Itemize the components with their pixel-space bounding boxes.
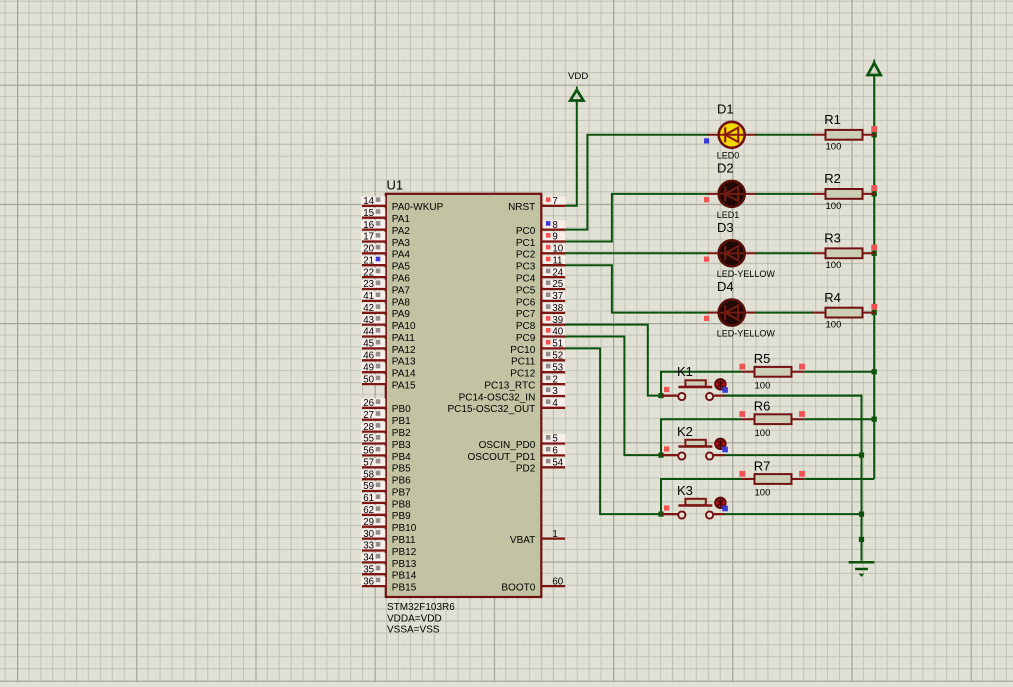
svg-text:PC11: PC11 (511, 357, 536, 368)
svg-text:R7: R7 (754, 458, 771, 473)
svg-text:D3: D3 (717, 220, 734, 235)
svg-text:51: 51 (552, 339, 563, 350)
svg-text:PB12: PB12 (392, 547, 417, 558)
svg-text:42: 42 (363, 303, 374, 314)
svg-text:LED-YELLOW: LED-YELLOW (717, 269, 776, 279)
svg-text:PA5: PA5 (392, 262, 411, 273)
svg-text:38: 38 (552, 303, 563, 314)
svg-text:PA15: PA15 (392, 381, 416, 392)
svg-text:53: 53 (552, 362, 563, 373)
svg-text:29: 29 (363, 517, 374, 528)
svg-text:45: 45 (363, 339, 374, 350)
svg-text:PA6: PA6 (392, 274, 411, 285)
svg-text:PA12: PA12 (392, 345, 416, 356)
svg-text:PC8: PC8 (516, 321, 536, 332)
svg-text:K3: K3 (677, 483, 693, 498)
svg-text:U1: U1 (387, 178, 404, 193)
svg-text:2: 2 (552, 374, 557, 385)
svg-text:PA0-WKUP: PA0-WKUP (392, 202, 444, 213)
svg-text:41: 41 (363, 291, 374, 302)
svg-text:PB15: PB15 (392, 583, 417, 594)
svg-text:37: 37 (552, 291, 563, 302)
svg-text:K2: K2 (677, 424, 693, 439)
svg-text:PB9: PB9 (392, 511, 411, 522)
svg-text:14: 14 (363, 196, 374, 207)
svg-text:33: 33 (363, 541, 374, 552)
svg-text:R5: R5 (754, 351, 771, 366)
svg-text:20: 20 (363, 244, 374, 255)
svg-text:23: 23 (363, 279, 374, 290)
svg-text:17: 17 (363, 232, 374, 243)
svg-text:PB3: PB3 (392, 440, 411, 451)
svg-text:PC9: PC9 (516, 333, 536, 344)
svg-text:60: 60 (552, 576, 563, 587)
svg-text:PA8: PA8 (392, 297, 411, 308)
svg-text:11: 11 (552, 255, 562, 266)
svg-text:100: 100 (826, 319, 842, 330)
svg-text:25: 25 (552, 279, 563, 290)
svg-text:D4: D4 (717, 279, 734, 294)
svg-text:PC2: PC2 (516, 250, 536, 261)
svg-text:PB0: PB0 (392, 404, 411, 415)
svg-text:44: 44 (363, 327, 374, 338)
svg-text:40: 40 (552, 327, 563, 338)
svg-text:62: 62 (363, 505, 374, 516)
svg-text:PA4: PA4 (392, 250, 411, 261)
svg-text:VDDA=VDD: VDDA=VDD (387, 613, 442, 624)
svg-text:PA13: PA13 (392, 357, 416, 368)
svg-text:PC12: PC12 (510, 369, 535, 380)
svg-text:27: 27 (363, 410, 374, 421)
svg-text:26: 26 (363, 398, 374, 409)
svg-text:PA11: PA11 (392, 333, 415, 344)
svg-text:PA9: PA9 (392, 309, 411, 320)
svg-text:D1: D1 (717, 101, 734, 116)
svg-text:VSSA=VSS: VSSA=VSS (387, 625, 440, 636)
svg-text:39: 39 (552, 315, 563, 326)
svg-text:LED-YELLOW: LED-YELLOW (717, 328, 776, 338)
svg-text:59: 59 (363, 481, 374, 492)
svg-text:22: 22 (363, 267, 374, 278)
svg-text:46: 46 (363, 351, 374, 362)
svg-text:PA2: PA2 (392, 226, 411, 237)
svg-text:PB13: PB13 (392, 559, 417, 570)
svg-text:PC1: PC1 (516, 238, 536, 249)
svg-text:PA3: PA3 (392, 238, 411, 249)
svg-text:PB8: PB8 (392, 499, 411, 510)
svg-text:36: 36 (363, 576, 374, 587)
svg-text:3: 3 (552, 386, 557, 397)
svg-text:35: 35 (363, 564, 374, 575)
svg-text:5: 5 (552, 434, 557, 445)
svg-text:OSCIN_PD0: OSCIN_PD0 (479, 440, 536, 451)
svg-text:VBAT: VBAT (510, 535, 535, 546)
svg-text:BOOT0: BOOT0 (501, 583, 535, 594)
svg-text:PC3: PC3 (516, 262, 536, 273)
svg-text:PA7: PA7 (392, 285, 411, 296)
svg-text:PC14-OSC32_IN: PC14-OSC32_IN (459, 392, 536, 403)
svg-text:PB14: PB14 (392, 571, 417, 582)
svg-text:58: 58 (363, 469, 374, 480)
svg-text:R1: R1 (824, 112, 841, 127)
svg-text:100: 100 (826, 201, 842, 212)
svg-text:PC6: PC6 (516, 297, 536, 308)
svg-text:PB5: PB5 (392, 464, 411, 475)
svg-text:50: 50 (363, 374, 374, 385)
svg-text:D2: D2 (717, 161, 734, 176)
svg-text:16: 16 (363, 220, 374, 231)
svg-text:34: 34 (363, 553, 374, 564)
svg-text:100: 100 (826, 142, 842, 153)
svg-text:R2: R2 (824, 171, 841, 186)
svg-text:OSCOUT_PD1: OSCOUT_PD1 (468, 452, 536, 463)
svg-text:100: 100 (826, 260, 842, 271)
svg-text:24: 24 (552, 267, 563, 278)
svg-text:VDD: VDD (568, 71, 588, 82)
svg-text:61: 61 (363, 493, 374, 504)
svg-text:28: 28 (363, 422, 374, 433)
svg-text:STM32F103R6: STM32F103R6 (387, 602, 455, 613)
svg-text:100: 100 (755, 488, 771, 499)
svg-text:55: 55 (363, 434, 374, 445)
svg-text:PC15-OSC32_OUT: PC15-OSC32_OUT (447, 404, 535, 415)
svg-text:100: 100 (755, 380, 771, 391)
svg-text:100: 100 (755, 428, 771, 439)
svg-text:9: 9 (552, 232, 557, 243)
svg-text:PA10: PA10 (392, 321, 416, 332)
svg-text:8: 8 (552, 220, 557, 231)
svg-text:6: 6 (552, 446, 557, 457)
svg-text:49: 49 (363, 362, 374, 373)
svg-text:10: 10 (552, 244, 563, 255)
svg-text:LED0: LED0 (717, 151, 740, 161)
svg-text:NRST: NRST (508, 202, 535, 213)
svg-text:R4: R4 (824, 290, 841, 305)
svg-text:R6: R6 (754, 399, 771, 414)
svg-text:LED1: LED1 (717, 210, 740, 220)
svg-text:PB1: PB1 (392, 416, 411, 427)
svg-text:21: 21 (363, 255, 374, 266)
svg-text:7: 7 (552, 196, 557, 207)
svg-text:PA1: PA1 (392, 214, 411, 225)
svg-text:R3: R3 (824, 231, 841, 246)
svg-text:PB11: PB11 (392, 535, 416, 546)
svg-text:PB7: PB7 (392, 487, 411, 498)
svg-text:52: 52 (552, 351, 563, 362)
svg-text:4: 4 (552, 398, 558, 409)
svg-text:PB4: PB4 (392, 452, 411, 463)
svg-text:1: 1 (552, 529, 557, 540)
svg-text:56: 56 (363, 446, 374, 457)
svg-text:PC10: PC10 (510, 345, 535, 356)
svg-text:57: 57 (363, 458, 374, 469)
svg-text:PB2: PB2 (392, 428, 411, 439)
svg-text:PC5: PC5 (516, 285, 536, 296)
svg-text:43: 43 (363, 315, 374, 326)
svg-text:K1: K1 (677, 364, 693, 379)
svg-text:PB10: PB10 (392, 523, 417, 534)
svg-text:PA14: PA14 (392, 369, 416, 380)
svg-text:PB6: PB6 (392, 476, 411, 487)
svg-text:15: 15 (363, 208, 374, 219)
svg-text:54: 54 (552, 458, 563, 469)
svg-text:PD2: PD2 (516, 464, 536, 475)
svg-text:PC13_RTC: PC13_RTC (484, 381, 535, 392)
svg-text:PC0: PC0 (516, 226, 536, 237)
svg-text:PC4: PC4 (516, 274, 536, 285)
svg-text:30: 30 (363, 529, 374, 540)
svg-text:PC7: PC7 (516, 309, 536, 320)
